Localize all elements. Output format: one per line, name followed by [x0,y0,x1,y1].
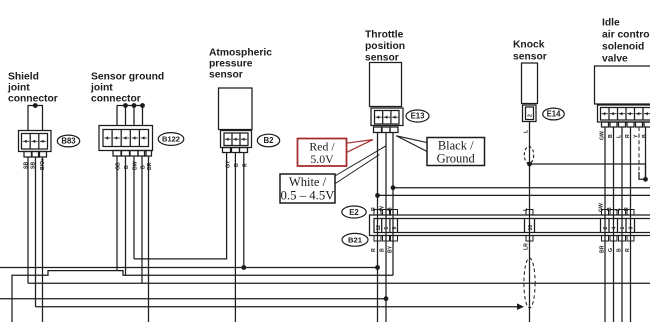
knock sensor body [522,63,538,104]
bar pin numbers 12 5 9 [376,225,398,231]
B2 terminal pins [223,148,248,153]
wire: TPS red 5V supply down off bottom [377,133,379,322]
atmospheric pressure sensor body [219,88,253,130]
wire: TPS black ground down, turns left along rail to far left, down off edge [392,133,394,276]
valve pin boxes below bar [602,236,635,242]
connector designator E2 [342,206,366,218]
joint connector B122 (sensor ground) top wires and junction dots [117,103,145,125]
callout: Red / 5.0V (red box with pointer to red wire) [298,139,374,167]
svg-text:LR: LR [524,243,530,250]
svg-text:Shield: Shield [8,72,39,83]
valve terminal pins [602,122,650,127]
joint connector B83 body [19,131,52,152]
knock pin label above bar [523,207,529,211]
inline connector E2/B21 bar inner [374,219,650,233]
wire: B122 pin4 down to shield rail [141,156,143,283]
svg-text:Atmospheric: Atmospheric [209,48,272,59]
callout: Black / Ground (box with pointer to black wire) [396,136,484,166]
rail: shield drain rail ending in arrow at knock shield [36,303,525,310]
label: Idle air control solenoid valve title [602,18,650,65]
svg-text:connector: connector [8,94,58,105]
wire: B122 pin1 down, turns left to edge [116,156,118,271]
svg-text:B: B [380,248,386,252]
inline connector E2/B21 bar outer [370,215,650,236]
svg-text:BY: BY [388,245,394,253]
joint connector B122 body [99,126,153,151]
rail: supply rail from left edge to TPS red wire, junction [0,265,380,270]
rail: shield rail full width [28,282,650,284]
svg-text:valve: valve [602,54,628,65]
rail: ground rail from TPS black wire jogging left, down off bottom edge [12,271,393,322]
svg-text:B83: B83 [61,137,76,146]
svg-text:Ground: Ground [437,152,476,166]
rail: knock shield tie to solenoid valve column, junction dots [527,162,648,182]
B83 terminal pins [24,152,47,158]
svg-text:sensor: sensor [365,53,399,64]
wire: B2 pin1 down, bridge to B122 pin3 [134,153,227,259]
idle air control solenoid valve body [595,66,650,104]
svg-text:Throttle: Throttle [365,30,404,41]
bar cell dividers at TPS cluster [382,219,398,233]
label: Atmospheric pressure sensor title [209,48,272,81]
wire: B122 pin2 down to joint rail [125,156,127,275]
wire: B2 pin2 down off bottom edge [234,153,236,322]
label: Knock sensor title [513,40,547,63]
wire: B83 pin3 down off bottom edge [42,157,44,322]
svg-text:position: position [365,41,405,52]
connector designator B21 [342,233,368,246]
svg-text:2: 2 [528,114,534,117]
knock cable shield symbol (upper) [524,147,533,164]
wire: B122 pin3 down, bridges right to B2 [133,156,135,259]
callout: White / 0.5-4.5V (box with pointer lines to white wire) [280,146,386,203]
svg-text:joint: joint [7,83,30,94]
B122 terminal pins [113,151,152,157]
connector designator B83 [57,135,79,147]
svg-text:G: G [608,248,614,252]
atmospheric pressure sensor connector [221,131,252,148]
E13 side pin boxes below bar [374,236,398,242]
knock cable shield symbol (lower, dashed oval) [524,258,535,308]
E13 terminal pins [374,127,399,133]
wire: B2 pin3 down to supply rail, junction [241,153,246,270]
wire: valve pin4 down off bottom [630,127,632,322]
valve pin labels below bar [600,245,632,253]
svg-text:E13: E13 [411,112,426,121]
svg-text:4: 4 [612,227,618,230]
svg-text:9: 9 [392,227,398,230]
knock sensor connector [523,105,537,122]
svg-text:BR: BR [600,245,606,253]
idle air control solenoid valve connector [598,105,650,122]
svg-text:3: 3 [629,227,635,230]
connector designator E14 [543,108,565,120]
svg-text:0.5 – 4.5V: 0.5 – 4.5V [280,189,335,203]
throttle position sensor body [370,63,402,107]
E13 pin labels above inline connector [371,206,394,211]
svg-text:Idle: Idle [602,18,620,29]
svg-text:E14: E14 [547,110,562,119]
svg-text:sensor: sensor [513,52,547,63]
svg-text:connector: connector [91,94,141,105]
rail: black/ground wire to ECM (right) with junction [391,185,650,190]
wire: knock sensor signal down off bottom [529,122,531,322]
svg-text:B21: B21 [348,236,363,245]
svg-text:pressure: pressure [209,59,253,70]
svg-text:solenoid: solenoid [602,42,644,53]
wire: valve pin1 down off bottom [604,127,606,322]
B122 wire color labels [116,161,154,170]
label: Sensor ground joint connector title [90,72,164,105]
wire: B83 pin1 shield drain down to rail [27,157,29,283]
joint connector B83 (shield) top wires and junction [28,103,44,130]
valve pin labels above bar [599,203,631,212]
knock pin boxes above/below bar [526,210,533,242]
rail: red/5V wire to ECM (right) with junction [375,193,650,198]
svg-text:5.0V: 5.0V [310,152,334,166]
svg-text:Knock: Knock [513,40,545,51]
svg-text:sensor: sensor [209,70,243,81]
svg-text:B2: B2 [264,136,275,145]
wire: B83 pin2 down to lower rail [35,157,37,307]
connector designator B2 [257,134,279,147]
svg-text:White /: White / [289,175,327,189]
valve wire color labels below connector [600,131,649,140]
B2 wire color labels [226,160,249,168]
svg-text:E2: E2 [349,208,359,217]
valve pin boxes above bar [602,210,635,216]
throttle position sensor connector [371,108,403,126]
svg-text:L: L [524,129,530,133]
E13 pin labels below inline connector [371,245,394,253]
wire: TPS white signal down off bottom [385,133,387,322]
svg-text:air control: air control [602,30,650,41]
wire: B122 pin5 down off bottom edge [148,156,150,322]
rail: signal rail from left edge to TPS white wire, junction [0,296,388,301]
svg-text:joint: joint [90,83,113,94]
connector designator E13 [406,110,429,122]
wire: valve pin3 down off bottom [621,127,623,322]
svg-text:B: B [617,248,623,252]
label: Shield joint connector title [7,72,58,105]
svg-text:R: R [371,248,377,252]
knock pin label LR below bar [524,243,530,250]
svg-text:B122: B122 [162,135,180,144]
knock wire color label L [524,129,530,133]
svg-text:R: R [625,248,631,252]
wire: valve pin5 dashed shield drain to junction [639,127,646,179]
E13 side pin boxes above bar [374,210,398,216]
svg-text:Black /: Black / [438,139,474,153]
svg-text:1: 1 [620,227,626,230]
wire: valve pin6 down to shield junction [645,127,647,179]
svg-text:5: 5 [384,227,390,230]
connector designator B122 [158,133,184,146]
bar cell divider and pin number 16 at knock [525,219,535,233]
B83 wire color labels [24,159,47,170]
svg-text:16: 16 [528,225,534,231]
svg-text:Sensor ground: Sensor ground [91,72,164,83]
svg-text:2: 2 [603,227,609,230]
wire: valve pin2 down off bottom [613,127,615,322]
bar cell dividers and pin numbers 2 4 1 3 at valve [601,219,635,233]
label: Throttle position sensor title [365,30,405,64]
svg-text:12: 12 [376,225,382,231]
